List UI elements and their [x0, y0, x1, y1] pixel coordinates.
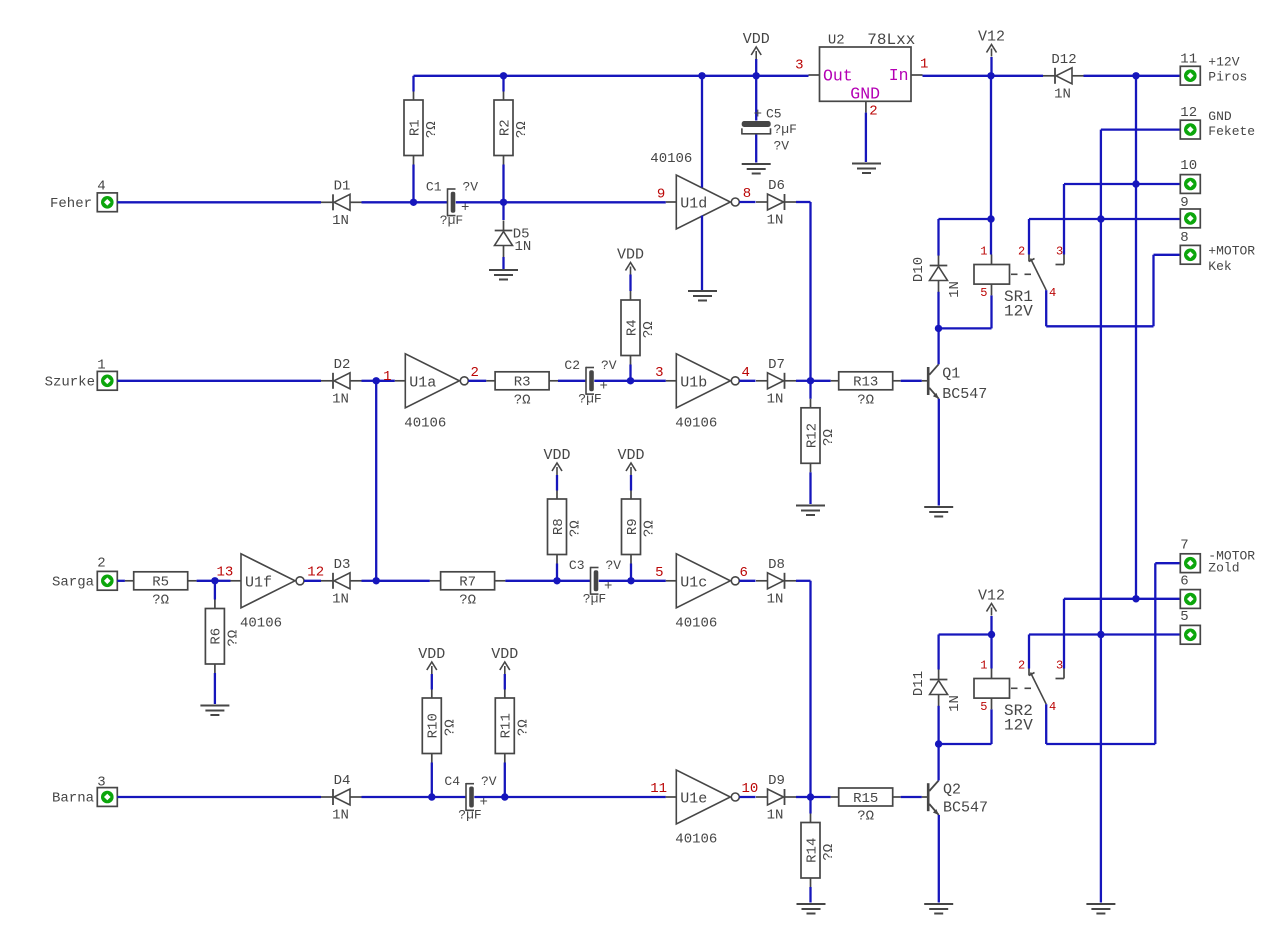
svg-text:Piros: Piros	[1208, 70, 1247, 85]
svg-text:U1b: U1b	[680, 374, 707, 391]
svg-text:1N: 1N	[947, 281, 963, 298]
svg-text:3: 3	[97, 775, 105, 791]
wire SR2 pin 4 to pad 7	[1045, 704, 1047, 744]
node D3 junction vertical	[373, 577, 380, 584]
relay SR2 contact pin 2	[1028, 669, 1030, 676]
diode D1 1N	[332, 194, 334, 210]
svg-text:GND: GND	[1208, 109, 1232, 124]
svg-text:?Ω: ?Ω	[514, 392, 531, 408]
relay SR1 contact pin 3	[1063, 255, 1065, 265]
svg-text:BC547: BC547	[942, 386, 987, 403]
svg-text:40106: 40106	[675, 415, 717, 431]
svg-text:1: 1	[980, 244, 987, 258]
node VDD rail junction C5	[753, 72, 760, 79]
resistor R11	[504, 690, 506, 699]
node R2/D5 junction	[500, 199, 507, 206]
svg-text:D6: D6	[768, 178, 785, 194]
wire D12 to +12V node	[1084, 75, 1137, 77]
svg-text:4: 4	[742, 365, 750, 381]
ground below U2	[852, 163, 881, 165]
wire R13 to Q1 base	[901, 380, 922, 382]
node +12V / pad 10 junction	[1132, 180, 1139, 187]
svg-text:40106: 40106	[650, 151, 692, 167]
svg-text:1: 1	[383, 369, 391, 385]
svg-text:R13: R13	[853, 375, 878, 391]
ground below R6	[200, 705, 229, 707]
svg-text:40106: 40106	[675, 832, 717, 848]
inverter U1b 40106	[676, 354, 730, 408]
wire C1 node to U1d input	[504, 201, 666, 203]
wire node to R7	[376, 580, 430, 582]
svg-text:BC547: BC547	[943, 800, 988, 817]
svg-text:2: 2	[471, 365, 479, 381]
wire vertical D2 node to D3 node	[375, 381, 377, 581]
wire U1d power to ground	[701, 216, 703, 291]
connector pad 3 Barna	[97, 788, 117, 807]
wire pad 6 net to SR2 pin 3	[1063, 599, 1065, 669]
svg-text:1N: 1N	[1054, 86, 1071, 102]
wire C5 to ground	[755, 135, 757, 163]
svg-text:R2: R2	[497, 119, 513, 136]
svg-text:Sarga: Sarga	[52, 575, 94, 591]
svg-text:Q2: Q2	[943, 782, 961, 799]
wire V12 junction to SR2 pin 1	[990, 635, 992, 669]
resistor R6	[214, 581, 216, 600]
connector pad 1 Szurke	[97, 371, 117, 390]
diode D10 1N	[930, 265, 948, 267]
connector pad 4 Feher	[97, 193, 117, 212]
svg-text:?V: ?V	[774, 139, 790, 154]
svg-text:R7: R7	[459, 575, 476, 591]
wire C4 node to U1e input	[505, 796, 666, 798]
svg-text:R15: R15	[853, 791, 878, 807]
svg-text:Feher: Feher	[50, 196, 92, 212]
ground below R14	[797, 903, 826, 905]
svg-text:U1c: U1c	[680, 574, 707, 591]
svg-text:12V: 12V	[1004, 717, 1033, 735]
node V12 junction	[987, 72, 994, 79]
diode D7 1N	[784, 373, 786, 389]
svg-text:7: 7	[1180, 538, 1188, 554]
wire U1a output to R3	[468, 380, 486, 382]
resistor R13	[831, 380, 840, 382]
wire pad 10 net to SR1 pin 3	[1063, 184, 1065, 255]
node R1/C1 junction	[410, 199, 417, 206]
wire D10 to collector node	[937, 292, 939, 329]
wire VDD symbol to rail	[755, 59, 757, 76]
capacitor C5	[755, 76, 757, 121]
svg-text:12V: 12V	[1004, 303, 1033, 321]
svg-text:D12: D12	[1051, 52, 1076, 68]
svg-text:4: 4	[97, 179, 105, 195]
svg-text:2: 2	[1018, 244, 1025, 258]
svg-text:6: 6	[1180, 573, 1188, 589]
wire C2 node to U1b input	[631, 380, 666, 382]
svg-text:?µF: ?µF	[440, 213, 463, 228]
diode D8 1N	[784, 573, 786, 589]
svg-text:?Ω: ?Ω	[459, 592, 476, 608]
svg-text:Q1: Q1	[942, 365, 960, 382]
svg-text:?Ω: ?Ω	[821, 844, 837, 861]
svg-text:VDD: VDD	[491, 646, 518, 663]
diode D12 1N	[1054, 68, 1056, 84]
node D2/U1a junction	[373, 377, 380, 384]
diode D3 1N	[332, 573, 334, 589]
svg-text:U1f: U1f	[245, 574, 272, 591]
svg-text:?V: ?V	[481, 774, 497, 789]
svg-text:R5: R5	[152, 575, 169, 591]
wire D8 drop to row 4	[809, 581, 811, 797]
svg-text:1N: 1N	[332, 213, 349, 229]
capacitor C1	[414, 201, 448, 203]
wire pad 5 net to SR2 pin 2	[1028, 635, 1030, 669]
svg-text:D4: D4	[334, 773, 351, 789]
svg-text:?µF: ?µF	[583, 591, 606, 606]
svg-text:1N: 1N	[332, 808, 349, 824]
wire D6 to vertical drop	[796, 201, 811, 203]
ground below GND net	[1086, 903, 1115, 905]
ground below R12	[796, 505, 825, 507]
svg-text:3: 3	[795, 58, 803, 74]
node D6/D7/R12 junction	[807, 377, 814, 384]
inverter U1a 40106	[405, 354, 459, 408]
connector pad 12 GND Fekete	[1180, 120, 1200, 139]
wire R15 to Q2 base	[901, 796, 922, 798]
svg-text:R3: R3	[514, 375, 531, 391]
svg-text:1: 1	[920, 57, 928, 73]
connector pad 10	[1180, 175, 1200, 194]
node V12/D11 junction	[988, 631, 995, 638]
svg-text:VDD: VDD	[543, 447, 570, 464]
svg-text:R4: R4	[624, 319, 640, 336]
svg-text:1N: 1N	[332, 391, 349, 407]
wire SR1 pin 4 to pad 8	[1045, 290, 1047, 326]
svg-text:2: 2	[869, 104, 877, 120]
svg-text:R6: R6	[209, 628, 225, 645]
svg-text:?Ω: ?Ω	[442, 719, 458, 736]
node V12/D10 junction	[987, 215, 994, 222]
connector pad 6	[1180, 590, 1200, 609]
wire Feher to D1	[117, 201, 321, 203]
svg-text:?Ω: ?Ω	[225, 630, 241, 647]
wire VDD rail	[414, 75, 809, 77]
wire pad 9 net to SR1 pin 2	[1028, 219, 1030, 255]
wire node to U1f input	[215, 580, 231, 582]
svg-text:?Ω: ?Ω	[857, 392, 874, 408]
svg-text:D1: D1	[334, 178, 351, 194]
svg-text:Kek: Kek	[1208, 259, 1232, 274]
resistor R9	[630, 491, 632, 500]
svg-text:U1a: U1a	[409, 374, 436, 391]
diode D4 1N	[332, 789, 334, 805]
resistor R15	[831, 796, 840, 798]
svg-text:Fekete: Fekete	[1208, 124, 1255, 139]
relay SR1 actuation dashes	[1011, 273, 1037, 275]
wire R5 to node 13	[197, 580, 215, 582]
diode D5 1N	[502, 202, 504, 220]
svg-text:1N: 1N	[332, 591, 349, 607]
wire junction to U1a input	[376, 380, 395, 382]
node R4 junction	[627, 377, 634, 384]
node GND / pad 5 junction	[1097, 631, 1104, 638]
ground below Q1	[924, 506, 953, 508]
svg-text:78Lxx: 78Lxx	[867, 31, 915, 49]
node Q1 collector / SR1 coil node	[935, 325, 942, 332]
diode D2 1N	[332, 373, 334, 389]
svg-text:6: 6	[740, 565, 748, 581]
svg-text:13: 13	[217, 565, 234, 581]
svg-text:?Ω: ?Ω	[641, 321, 657, 338]
svg-text:VDD: VDD	[617, 447, 644, 464]
svg-text:R11: R11	[499, 713, 515, 738]
svg-text:8: 8	[743, 186, 751, 202]
svg-text:?µF: ?µF	[458, 808, 481, 823]
svg-text:Zold: Zold	[1208, 561, 1239, 576]
svg-text:?Ω: ?Ω	[568, 520, 584, 537]
svg-text:11: 11	[1180, 51, 1197, 67]
relay SR2 actuation dashes	[1011, 687, 1037, 689]
wire D6 drop to row 2	[809, 202, 811, 381]
relay SR2 contact arm pin 4	[1031, 673, 1047, 705]
wire V12 junction to SR1 pin 1	[990, 219, 992, 255]
svg-text:C3: C3	[569, 558, 585, 573]
svg-text:D8: D8	[768, 557, 785, 573]
wire D7 to node	[796, 380, 811, 382]
svg-text:10: 10	[742, 781, 759, 797]
svg-text:D2: D2	[334, 357, 351, 373]
svg-text:?V: ?V	[601, 358, 617, 373]
capacitor C2	[585, 367, 587, 395]
svg-text:1: 1	[980, 658, 987, 672]
wire D3 to node	[362, 580, 377, 582]
svg-text:V12: V12	[978, 29, 1005, 46]
resistor R1	[412, 76, 414, 92]
svg-text:9: 9	[657, 186, 665, 202]
wire Szurke to D2	[117, 380, 321, 382]
relay SR2 contact pin 3	[1063, 669, 1065, 679]
svg-text:D10: D10	[911, 257, 927, 282]
svg-text:D3: D3	[334, 557, 351, 573]
resistor R7	[430, 580, 441, 582]
node +12V junction	[1132, 72, 1139, 79]
connector pad 8 +MOTOR Kek	[1180, 245, 1200, 264]
svg-text:U1d: U1d	[680, 196, 707, 213]
resistor R2	[502, 76, 504, 92]
svg-text:5: 5	[980, 700, 987, 714]
svg-text:R1: R1	[407, 119, 423, 136]
transistor Q2 BC547	[922, 796, 927, 798]
svg-text:Out: Out	[823, 67, 853, 86]
svg-text:Barna: Barna	[52, 791, 94, 807]
node D8/D9/R14 junction	[807, 793, 814, 800]
inverter U1e 40106	[676, 770, 730, 824]
node Q2 collector / SR2 coil node	[935, 740, 942, 747]
svg-text:?µF: ?µF	[578, 391, 601, 406]
resistor R4	[630, 291, 632, 300]
svg-text:In: In	[889, 66, 909, 85]
resistor R10	[431, 690, 433, 699]
svg-text:C5: C5	[766, 107, 782, 122]
wire V12 junction to D12	[991, 75, 1043, 77]
wire D2 to node	[362, 380, 377, 382]
svg-text:9: 9	[1180, 195, 1188, 211]
svg-text:?Ω: ?Ω	[857, 809, 874, 825]
capacitor C4	[432, 796, 466, 798]
svg-text:?Ω: ?Ω	[424, 121, 440, 138]
svg-text:+12V: +12V	[1208, 54, 1239, 69]
svg-text:2: 2	[1018, 658, 1025, 672]
wire R12 to ground	[809, 472, 811, 504]
wire Q2 emitter to ground	[938, 815, 940, 903]
node R8 junction	[553, 577, 560, 584]
wire R3 to C2	[558, 380, 586, 382]
wire U1b output to D7	[739, 380, 755, 382]
svg-text:1N: 1N	[515, 239, 532, 255]
svg-text:C4: C4	[444, 774, 460, 789]
wire U1f output to D3	[304, 580, 321, 582]
connector pad 11 +12V Piros	[1180, 66, 1200, 85]
inverter U1d 40106	[676, 175, 730, 229]
svg-text:?Ω: ?Ω	[152, 592, 169, 608]
wire V12 to SR1 coil	[990, 76, 992, 219]
relay SR1 contact pin 2	[1028, 255, 1030, 262]
wire Barna to D4	[117, 796, 321, 798]
svg-text:V12: V12	[978, 588, 1005, 605]
wire GND pad 12 horizontal	[1101, 128, 1181, 130]
wire R14 to ground	[809, 887, 811, 903]
connector pad 2 Sarga	[97, 571, 117, 590]
svg-text:U2: U2	[828, 33, 845, 49]
wire node to R13	[811, 380, 831, 382]
svg-text:+: +	[754, 107, 762, 123]
svg-text:?Ω: ?Ω	[514, 121, 530, 138]
wire node to SR2 pin 5	[939, 743, 992, 745]
voltage regulator U2 78Lxx	[820, 47, 912, 101]
wire +12V node to pad 11	[1136, 75, 1181, 77]
svg-text:?µF: ?µF	[774, 122, 797, 137]
wire D8 to vertical drop	[796, 580, 811, 582]
svg-text:C1: C1	[426, 179, 442, 194]
wire R7 to R8 node	[505, 580, 557, 582]
wire Q1 emitter to ground	[938, 399, 940, 506]
resistor R8	[556, 491, 558, 500]
wire U1d power to VDD rail	[701, 76, 703, 188]
svg-text:40106: 40106	[675, 615, 717, 631]
svg-text:40106: 40106	[240, 615, 282, 631]
wire U2 GND pin to ground	[865, 113, 867, 162]
svg-text:R8: R8	[551, 518, 567, 535]
svg-text:?Ω: ?Ω	[515, 719, 531, 736]
svg-text:3: 3	[655, 365, 663, 381]
diode D11 1N	[930, 679, 948, 681]
svg-text:VDD: VDD	[418, 646, 445, 663]
capacitor C3	[557, 580, 591, 582]
node VDD rail junction U1d power	[698, 72, 705, 79]
wire D4 to node R10	[362, 796, 432, 798]
wire U1e output to D9	[739, 796, 755, 798]
svg-text:R14: R14	[804, 838, 820, 863]
transistor Q1 BC547	[922, 380, 927, 382]
svg-text:?Ω: ?Ω	[821, 429, 837, 446]
wire node to SR1 pin 5	[939, 327, 992, 329]
node R11 junction	[501, 793, 508, 800]
svg-text:40106: 40106	[404, 415, 446, 431]
diode D6 1N	[784, 194, 786, 210]
svg-text:C2: C2	[564, 358, 580, 373]
wire U1c output to D8	[739, 580, 755, 582]
svg-text:+MOTOR: +MOTOR	[1208, 243, 1255, 258]
svg-text:2: 2	[97, 556, 105, 572]
wire node to R15	[811, 796, 831, 798]
node R10 junction	[428, 793, 435, 800]
svg-text:11: 11	[650, 781, 667, 797]
svg-text:3: 3	[1056, 658, 1063, 672]
svg-text:12: 12	[307, 565, 324, 581]
wire Q2 collector	[937, 744, 939, 781]
svg-text:D11: D11	[911, 671, 927, 696]
svg-text:4: 4	[1049, 700, 1056, 714]
svg-text:1N: 1N	[767, 808, 784, 824]
wire D11 to collector node	[937, 706, 939, 744]
svg-text:1N: 1N	[767, 391, 784, 407]
wire junction to D10	[939, 218, 992, 220]
svg-text:12: 12	[1180, 105, 1197, 121]
svg-text:VDD: VDD	[743, 31, 770, 48]
resistor R12	[809, 381, 811, 399]
wire R6 to ground	[214, 673, 216, 704]
connector pad 7 -MOTOR Zold	[1180, 554, 1200, 573]
resistor R14	[809, 797, 811, 814]
svg-text:1N: 1N	[947, 695, 963, 712]
node GND / pad 9 junction	[1097, 215, 1104, 222]
relay SR1 contact arm pin 4	[1031, 259, 1047, 291]
svg-text:1N: 1N	[767, 591, 784, 607]
svg-text:1: 1	[97, 358, 105, 374]
resistor R5	[125, 580, 133, 582]
wire Sarga to R5	[117, 580, 125, 582]
node VDD rail junction R2	[500, 72, 507, 79]
connector pad 5	[1180, 625, 1200, 644]
svg-text:?V: ?V	[606, 558, 622, 573]
node R9 junction	[627, 577, 634, 584]
svg-text:GND: GND	[850, 85, 880, 104]
svg-text:R9: R9	[625, 518, 641, 535]
svg-text:3: 3	[1056, 244, 1063, 258]
wire D1 to node R1	[362, 201, 414, 203]
svg-text:5: 5	[655, 565, 663, 581]
svg-text:?Ω: ?Ω	[642, 520, 658, 537]
svg-text:4: 4	[1049, 286, 1056, 300]
wire D5 to ground	[502, 257, 504, 269]
connector pad 9	[1180, 209, 1200, 228]
svg-text:10: 10	[1180, 158, 1197, 174]
ground below U1d	[688, 290, 717, 292]
wire D9 to node	[796, 796, 811, 798]
wire Q1 collector	[937, 328, 939, 364]
svg-text:U1e: U1e	[680, 791, 707, 808]
svg-text:VDD: VDD	[617, 247, 644, 264]
svg-text:Szurke: Szurke	[45, 375, 95, 391]
wire +12V net vertical	[1135, 76, 1137, 599]
svg-text:5: 5	[1180, 609, 1188, 625]
relay coil SR2 12V	[991, 669, 993, 679]
node +12V / pad 6 junction	[1132, 595, 1139, 602]
svg-text:D9: D9	[768, 773, 785, 789]
wire U1d output to D6	[739, 201, 755, 203]
svg-text:?V: ?V	[463, 179, 479, 194]
wire junction to D11	[939, 633, 992, 635]
inverter U1c 40106	[676, 554, 730, 608]
